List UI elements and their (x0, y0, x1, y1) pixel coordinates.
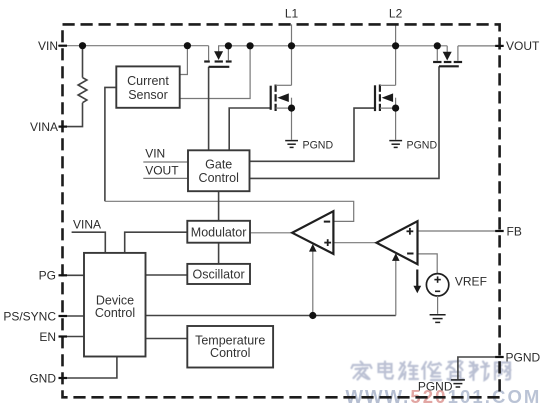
wire L2 node (395, 24, 397, 85)
wire GND pin (63, 357, 117, 379)
wire gate control to modulator (218, 191, 220, 221)
wire device control to temperature control (146, 338, 188, 340)
wire PGND pin to internal ground (458, 357, 500, 379)
svg-text:L2: L2 (389, 7, 403, 21)
watermark WWW.520101.COM (346, 386, 541, 407)
svg-text:L1: L1 (285, 7, 299, 21)
wire current sensor sense across pass fet (180, 46, 250, 99)
wire gate control to high side fet gate (229, 108, 271, 150)
wire device control bottom rail to amp bias (146, 315, 396, 317)
block gate control (188, 150, 250, 191)
svg-text:PGND: PGND (303, 140, 334, 152)
voltage reference VREF (426, 274, 448, 296)
svg-text:Sensor: Sensor (128, 88, 168, 102)
svg-text:Current: Current (127, 74, 169, 88)
wire device control to modulator (125, 232, 188, 253)
svg-text:Modulator: Modulator (191, 225, 247, 239)
svg-text:Control: Control (210, 346, 250, 360)
wire vref to ground (437, 296, 439, 314)
wire VIN rail mid segment (228, 45, 447, 47)
wire current sensor left output (105, 87, 116, 201)
svg-text:Gate: Gate (205, 157, 232, 171)
block current sensor (116, 66, 179, 107)
wire current sense feedback to comparator minus (105, 201, 354, 221)
output pass fet M2 (433, 46, 462, 67)
wire EN pin (63, 336, 84, 338)
block modulator (187, 221, 250, 243)
ground PGND2 (389, 141, 402, 148)
svg-text:Control: Control (95, 306, 135, 320)
bias arrow into error amp (392, 253, 400, 315)
svg-text:EN: EN (39, 330, 56, 344)
svg-text:VOUT: VOUT (506, 39, 540, 53)
resistor VINA divider (78, 78, 87, 103)
ground under vref (430, 315, 446, 323)
bias arrow into comparator (309, 244, 317, 316)
block device control (84, 253, 146, 357)
svg-text:PGND: PGND (407, 140, 438, 152)
ground PGND1 (285, 141, 298, 148)
wire modulator to oscillator (218, 243, 220, 264)
wire resistor to VINA pin (63, 103, 83, 127)
wire VOUT output (458, 45, 500, 47)
wire VIN input to gate control (143, 161, 188, 163)
wire modulator to comparator output (250, 232, 292, 234)
input pass fet M1 (204, 46, 231, 67)
wire current sensor top tap (180, 46, 188, 75)
svg-text:PG: PG (39, 269, 56, 283)
wire PG pin (63, 274, 84, 276)
block oscillator (187, 264, 250, 284)
svg-text:PGND: PGND (418, 380, 453, 394)
svg-text:VINA: VINA (30, 120, 58, 134)
IC boundary dashed border (63, 24, 500, 397)
soft start down arrow (413, 270, 421, 294)
ground internal PGND bottom right (451, 380, 465, 387)
wire device control to oscillator (146, 274, 188, 276)
error amp U2 (377, 221, 418, 264)
svg-text:VIN: VIN (38, 39, 58, 53)
wire VIN rail left segment (58, 45, 209, 47)
pin ticks (59, 46, 504, 378)
wire L1 node (291, 24, 293, 85)
wire gate control to output pass fet gate (250, 66, 440, 178)
high side switch fet Q1 (271, 85, 292, 112)
svg-text:Control: Control (199, 171, 239, 185)
wire VINA to device control (72, 232, 106, 253)
wire fet Q2 source to pgnd (395, 108, 397, 140)
svg-text:VREF: VREF (455, 274, 487, 288)
wire FB input (418, 230, 500, 232)
svg-text:VOUT: VOUT (145, 163, 179, 177)
wire error amp output to comparator plus (333, 242, 376, 244)
svg-text:PGND: PGND (506, 350, 541, 364)
wire PS/SYNC pin (63, 315, 84, 317)
wire error amp minus to vref (418, 254, 438, 274)
svg-text:VIN: VIN (145, 146, 165, 160)
comparator U1 (292, 211, 333, 254)
svg-text:PS/SYNC: PS/SYNC (3, 310, 56, 324)
wire resistor top drop (82, 46, 84, 78)
wire fet Q1 source to pgnd (291, 108, 293, 140)
watermark 家电维修资料网 (0, 0, 1, 1)
wire input pass fet gate to gate control (208, 67, 210, 151)
svg-text:Oscillator: Oscillator (193, 268, 245, 282)
wire VOUT input to gate control (143, 177, 188, 179)
low side switch fet Q2 (375, 85, 396, 112)
svg-text:GND: GND (29, 371, 56, 385)
block temperature control (187, 326, 273, 368)
svg-text:FB: FB (507, 224, 522, 238)
node junction dots (79, 42, 441, 319)
wire gate control to fet Q2 gate (250, 108, 376, 161)
svg-text:VINA: VINA (73, 218, 101, 232)
